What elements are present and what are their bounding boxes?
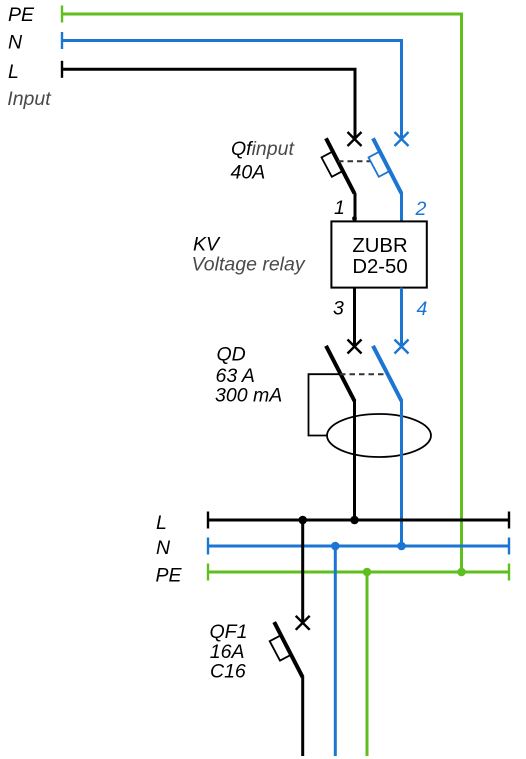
breaker Qfinput pole N thermal element [369, 151, 391, 177]
svg-text:Input: Input [7, 88, 52, 110]
breaker QF1 lever [274, 622, 303, 677]
relay U1 ZUBR D2-50 box [331, 221, 426, 287]
svg-text:40A: 40A [231, 162, 266, 184]
svg-text:ZUBR: ZUBR [352, 235, 407, 257]
bus L bar [208, 519, 509, 522]
svg-text:QD: QD [217, 344, 246, 366]
junction dot PE bus to output [363, 568, 372, 577]
breaker Qfinput pole N contact X [395, 132, 409, 146]
junction dot L bus to QF1 [298, 516, 307, 525]
bus L right tick [508, 512, 510, 529]
svg-text:N: N [8, 32, 23, 54]
svg-text:300 mA: 300 mA [215, 385, 282, 407]
svg-text:L: L [156, 512, 167, 534]
RCD QD trip link dashed [340, 373, 388, 375]
RCD QD pole N contact X [395, 340, 409, 354]
breaker Qfinput trip link dashed [338, 160, 371, 162]
junction dot N bus to output [331, 542, 340, 551]
wire N relay to QD [400, 288, 403, 347]
wire PE input rail [62, 14, 462, 572]
terminal tick PE [61, 6, 63, 23]
wire L below Qfinput [354, 193, 357, 222]
junction dot at relay input [352, 216, 357, 221]
svg-text:Voltage relay: Voltage relay [192, 253, 306, 275]
svg-text:C16: C16 [210, 660, 246, 682]
wire N input rail [62, 41, 402, 140]
bus N right tick [508, 538, 510, 555]
wire L bus to QF1 [301, 520, 304, 623]
RCD QD pole L contact X [348, 340, 362, 354]
svg-text:PE: PE [156, 564, 183, 586]
bus PE bar [208, 571, 509, 574]
svg-text:PE: PE [8, 4, 35, 26]
breaker Qfinput pole L thermal element [322, 151, 344, 177]
svg-text:N: N [156, 537, 171, 559]
terminal tick N [61, 32, 63, 49]
svg-text:1: 1 [334, 197, 345, 219]
wire N below Qfinput [400, 193, 403, 222]
junction dot PE bus from input [457, 568, 466, 577]
RCD QD pole L lever [326, 346, 355, 401]
bus N bar [208, 545, 509, 548]
breaker QF1 contact X [296, 616, 310, 630]
svg-text:4: 4 [417, 298, 428, 320]
junction dot N bus from QD [397, 542, 406, 551]
terminal tick L [61, 61, 63, 78]
RCD QD pole N lever [373, 346, 402, 401]
svg-text:D2-50: D2-50 [352, 256, 407, 278]
svg-text:KV: KV [193, 233, 221, 255]
breaker Qfinput pole L lever [326, 138, 355, 193]
bus PE right tick [508, 564, 510, 581]
breaker QF1 thermal element [270, 635, 292, 661]
breaker Qfinput pole L contact X [348, 132, 362, 146]
bus N left tick [207, 538, 209, 555]
svg-text:2: 2 [415, 198, 427, 220]
bus PE left tick [207, 564, 209, 581]
wire L QD to bus [353, 400, 356, 520]
breaker Qfinput pole N lever [373, 138, 402, 193]
RCD QD toroid ellipse [327, 414, 431, 457]
wire N output drop [334, 546, 337, 756]
svg-text:Qfinput: Qfinput [231, 138, 295, 160]
wire L input rail [62, 69, 355, 139]
wire L output below QF1 [301, 677, 304, 756]
wire L relay to QD [353, 288, 356, 347]
svg-text:3: 3 [333, 298, 344, 320]
svg-text:QF1: QF1 [210, 621, 248, 643]
bus L left tick [207, 512, 209, 529]
junction dot L bus from QD [350, 516, 359, 525]
svg-text:L: L [8, 61, 19, 83]
wire N QD to bus [400, 400, 403, 546]
wire PE output drop [366, 572, 369, 756]
RCD QD test circuit outline [309, 374, 340, 435]
